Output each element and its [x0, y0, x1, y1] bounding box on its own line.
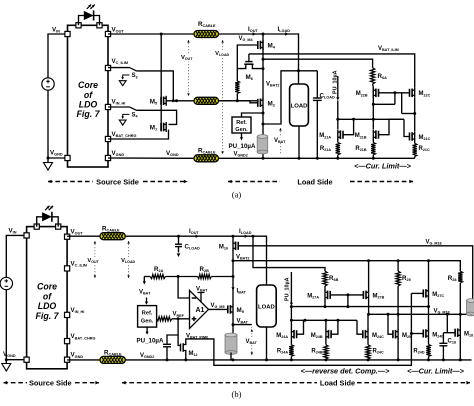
svg-text:Ref.: Ref.	[236, 120, 247, 126]
svg-text:<—Cur. Limit—>: <—Cur. Limit—>	[407, 367, 465, 376]
svg-text:Core: Core	[78, 80, 98, 90]
svg-text:LDO: LDO	[79, 100, 98, 110]
svg-text:of: of	[43, 291, 52, 301]
svg-text:<—Cur. Limit—>: <—Cur. Limit—>	[354, 162, 412, 171]
svg-text:Ref.: Ref.	[142, 311, 153, 317]
svg-text:Source Side: Source Side	[96, 177, 139, 186]
svg-text:(a): (a)	[232, 190, 242, 200]
svg-text:<—reverse det. Comp.—>: <—reverse det. Comp.—>	[301, 367, 391, 376]
svg-text:A1: A1	[196, 307, 205, 314]
svg-text:Fig. 7: Fig. 7	[36, 311, 60, 321]
svg-text:of: of	[84, 90, 93, 100]
svg-text:PU_10µA: PU_10µA	[137, 338, 164, 345]
svg-text:LOAD: LOAD	[291, 104, 308, 110]
svg-text:Source Side: Source Side	[29, 378, 72, 387]
svg-text:LOAD: LOAD	[258, 305, 275, 311]
svg-text:Fig. 7: Fig. 7	[77, 109, 101, 119]
svg-text:Gen.: Gen.	[235, 127, 248, 133]
svg-text:Gen.: Gen.	[141, 319, 154, 325]
svg-text:Core: Core	[37, 282, 57, 292]
svg-text:Load Side: Load Side	[297, 178, 332, 187]
svg-text:PU_10µA: PU_10µA	[284, 277, 290, 301]
svg-text:(b): (b)	[232, 389, 242, 399]
svg-text:Load Side: Load Side	[320, 378, 355, 387]
svg-text:LDO: LDO	[38, 301, 57, 311]
svg-text:PU_10µA: PU_10µA	[229, 143, 256, 150]
